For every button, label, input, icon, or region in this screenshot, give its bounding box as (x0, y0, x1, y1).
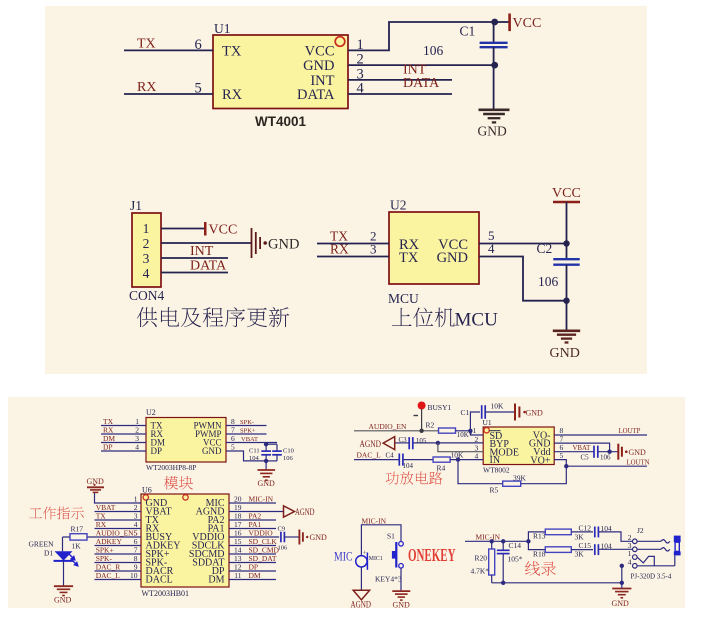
svg-text:DP: DP (151, 446, 163, 456)
svg-text:39K: 39K (513, 474, 527, 483)
svg-text:DATA: DATA (190, 259, 227, 274)
wire U6 pin 20 (229, 502, 276, 504)
svg-text:1: 1 (357, 37, 364, 53)
feedback wire to R5 (458, 460, 503, 484)
branch to R13 (528, 532, 545, 541)
caption 工作指示 (29, 507, 84, 520)
node C1-GND junction (491, 62, 498, 69)
wire R4 to IN (450, 459, 483, 461)
svg-text:DP: DP (103, 443, 113, 452)
capacitor C14 (502, 541, 504, 550)
svg-text:GND: GND (393, 601, 411, 610)
svg-text:4: 4 (475, 451, 479, 460)
wire down to GND (566, 301, 568, 331)
svg-text:J1: J1 (130, 198, 142, 213)
svg-text:C4: C4 (386, 451, 395, 459)
bottom rail (492, 582, 622, 584)
wire U1 pin 1 to VCC node (348, 22, 495, 50)
wire U2 pin 5 to VCC node (479, 243, 567, 245)
wire U6 pin 6 (95, 545, 142, 547)
svg-text:C14: C14 (509, 541, 522, 550)
wire pin 6 VBAT (226, 442, 277, 444)
svg-text:C10: C10 (283, 448, 294, 455)
svg-text:R17: R17 (71, 525, 84, 534)
J2 pin 2 (633, 539, 638, 544)
svg-text:TX: TX (222, 43, 242, 59)
ground (258, 469, 276, 471)
svg-text:GND: GND (87, 477, 105, 486)
svg-text:GND: GND (258, 479, 276, 488)
resistor R18 (545, 547, 571, 553)
wire pin4 to gnd rail (621, 566, 623, 583)
wire to ground (265, 461, 267, 470)
ground (54, 585, 73, 587)
svg-text:6: 6 (195, 37, 202, 53)
svg-text:R5: R5 (490, 486, 499, 495)
svg-text:2: 2 (475, 435, 479, 444)
svg-text:VCC: VCC (513, 16, 542, 31)
wire U6 pin 10 (95, 579, 142, 581)
ground (inverted earth) (93, 484, 95, 486)
svg-text:DATA: DATA (297, 87, 335, 103)
svg-text:D1: D1 (44, 549, 53, 558)
wire RX to U2 pin 3 (317, 256, 389, 258)
capacitor C11 (265, 444, 267, 451)
wire U6 pin 18 (229, 519, 276, 521)
svg-text:GND: GND (550, 346, 580, 361)
ground (392, 590, 410, 592)
J2 ring contact (637, 548, 661, 550)
svg-text:INT: INT (190, 244, 214, 259)
svg-text:GND: GND (54, 596, 72, 605)
svg-text:4: 4 (143, 266, 150, 281)
wire VCC to node (566, 202, 568, 244)
svg-text:DM: DM (249, 571, 261, 580)
svg-text:R18: R18 (533, 549, 546, 558)
wire U6 pin1 to ground (95, 493, 142, 504)
wire TX to U2 pin 2 (317, 243, 389, 245)
svg-text:3: 3 (143, 251, 150, 266)
wire R17 to LED (62, 537, 64, 551)
svg-text:C1: C1 (460, 24, 476, 39)
wire MIC-IN rail (465, 540, 528, 542)
wire pin 8 SPK- (226, 425, 267, 427)
svg-text:AGND: AGND (351, 600, 372, 610)
svg-text:104: 104 (403, 462, 414, 470)
resistor R5 (503, 481, 521, 486)
svg-text:S1: S1 (387, 532, 395, 541)
power symbol VCC (204, 222, 207, 236)
svg-text:DATA: DATA (403, 76, 440, 91)
analog ground AGND triangle (395, 442, 410, 444)
wire to VCC symbol (495, 21, 509, 23)
wire U2 pin 4 to GND node (479, 257, 567, 301)
wire R5 to VO+ node (521, 466, 567, 484)
resistor R4 (403, 459, 433, 461)
svg-text:10K: 10K (491, 402, 505, 411)
node junction (419, 429, 423, 433)
wire Vdd VBAT (554, 451, 594, 453)
svg-text:1K: 1K (72, 542, 82, 551)
wire U6 pin 17 (229, 528, 276, 530)
svg-text:WT4001: WT4001 (255, 114, 307, 129)
wire U1 pin 4 DATA (348, 93, 452, 95)
wire down to GND (493, 65, 495, 109)
capacitor C12 (571, 531, 593, 533)
analog ground AGND triangle (284, 506, 295, 517)
wire pin 5 GND (226, 451, 266, 461)
J2 pin 4 (633, 564, 638, 569)
wire U2 pin 4 (DP) (101, 450, 146, 452)
node IN junction (456, 457, 460, 461)
wire J2 pin4 (637, 565, 675, 567)
node VCC junction (491, 19, 498, 26)
bottom schematic background (8, 397, 685, 608)
svg-text:TX: TX (137, 37, 156, 52)
wire U6 pin 7 (95, 553, 142, 555)
caption 上位机MCU (392, 308, 455, 328)
wire LED to ground (63, 561, 65, 586)
svg-text:SPK+: SPK+ (240, 428, 256, 435)
svg-text:MIC: MIC (334, 549, 353, 564)
wire U6 pin 13 (229, 562, 276, 564)
svg-text:SPK-: SPK- (240, 419, 254, 426)
svg-text:GND: GND (437, 250, 468, 266)
svg-text:MIC-IN: MIC-IN (362, 516, 387, 525)
ground chassis (251, 228, 253, 258)
svg-text:MIC1: MIC1 (369, 556, 383, 562)
svg-text:4: 4 (488, 241, 495, 256)
svg-text:4: 4 (357, 81, 365, 97)
caption 模块 (164, 476, 193, 490)
svg-text:106: 106 (278, 545, 289, 552)
svg-text:LOUTN: LOUTN (627, 459, 650, 466)
svg-text:3K: 3K (575, 549, 585, 558)
svg-text:4: 4 (628, 558, 632, 567)
ground chassis (617, 444, 619, 460)
svg-text:U1: U1 (214, 21, 231, 36)
capacitor C1 to gnd (470, 412, 480, 431)
node VBAT junction (264, 442, 268, 446)
wire BYP to MODE (438, 443, 483, 452)
svg-text:TX: TX (399, 250, 419, 266)
caption 供电及程序更新 (137, 307, 289, 327)
wire U6 pin16 VDDIO to C9 (229, 536, 279, 538)
wire TX to U1 pin 6 (124, 49, 213, 51)
svg-text:105*: 105* (508, 555, 523, 564)
svg-text:2: 2 (143, 236, 150, 251)
wire U2 pin 2 (RX) (101, 433, 146, 435)
wire U6 pin 14 (229, 553, 276, 555)
svg-text:ONEKEY: ONEKEY (408, 545, 456, 565)
wire AUDIO_EN (354, 430, 439, 432)
analog ground AGND (353, 590, 369, 600)
wire RX to U1 pin 5 (124, 93, 213, 95)
svg-text:J2: J2 (637, 526, 644, 535)
jack plug symbol (674, 536, 681, 543)
svg-text:5: 5 (231, 443, 235, 452)
svg-text:LOUTP: LOUTP (619, 428, 641, 435)
ground chassis (514, 404, 516, 421)
svg-text:PJ-320D 3.5-4: PJ-320D 3.5-4 (631, 573, 672, 581)
op-amp U1 WT4001 (213, 35, 348, 109)
microphone MIC1 (356, 556, 367, 567)
wire U6 pin 4 (95, 528, 142, 530)
svg-text:C5: C5 (581, 453, 590, 461)
svg-text:AGND: AGND (360, 440, 382, 450)
notch indicator (183, 495, 188, 500)
wire BYP to C3 (413, 442, 483, 444)
svg-text:GND: GND (303, 58, 334, 74)
power symbol VCC (508, 14, 511, 32)
node pin1 junction (468, 429, 472, 433)
node junction (607, 450, 611, 454)
wire J1 pin3 INT (161, 257, 228, 259)
node junction (563, 240, 569, 246)
svg-text:DAC_L: DAC_L (96, 571, 121, 580)
node junction (564, 464, 568, 468)
svg-text:VBAT: VBAT (241, 436, 258, 443)
wire U6 pin 3 (95, 519, 142, 521)
wire U6 pin 12 (229, 570, 276, 572)
J2 tip contact (637, 540, 661, 542)
wire U1 pin 2 to C1 lower node (348, 64, 495, 66)
wire mic to AGND (360, 567, 362, 590)
ground (553, 329, 580, 332)
svg-text:RX: RX (222, 87, 243, 103)
svg-text:GND: GND (478, 124, 507, 139)
J2 switch contact (637, 556, 654, 565)
node junction (563, 298, 569, 304)
svg-text:104: 104 (249, 455, 260, 462)
svg-text:BUSY1: BUSY1 (428, 403, 452, 412)
capacitor C10 (276, 444, 278, 451)
svg-text:AGND: AGND (295, 507, 315, 517)
svg-text:C11: C11 (249, 448, 260, 455)
svg-text:DAC_L: DAC_L (357, 450, 382, 459)
ground (479, 109, 510, 112)
svg-text:GND: GND (268, 237, 299, 253)
caption 线录 (525, 561, 556, 576)
svg-text:106: 106 (283, 455, 294, 462)
svg-text:1: 1 (143, 221, 150, 236)
svg-text:R13: R13 (533, 532, 546, 541)
svg-text:KEY4*3: KEY4*3 (375, 575, 402, 584)
top schematic background (45, 6, 647, 374)
svg-text:106: 106 (600, 453, 611, 461)
svg-text:R2: R2 (426, 420, 435, 429)
ground chassis (298, 530, 300, 545)
svg-text:C1: C1 (461, 408, 470, 417)
svg-text:U1: U1 (483, 418, 492, 427)
wire U6 pin 2 (95, 511, 142, 513)
wire C12 to J2 pin2 (598, 532, 632, 541)
svg-text:R4: R4 (437, 464, 446, 473)
svg-text:U2: U2 (146, 408, 156, 417)
svg-text:11: 11 (234, 571, 241, 580)
svg-text:DM: DM (208, 575, 224, 586)
wire U2 pin 3 (DM) (101, 442, 146, 444)
wire BUSY1 down (421, 409, 423, 431)
wire GND pin7 (554, 443, 609, 452)
svg-text:MCU: MCU (388, 291, 419, 306)
pin1 indicator (143, 495, 148, 500)
wire U2 pin 1 (TX) (101, 425, 146, 427)
wire C15 to J2 pin3 (598, 548, 632, 550)
wire pin 7 SPK+ (226, 433, 267, 435)
svg-text:MIC-IN: MIC-IN (249, 494, 274, 503)
wire U6 pin19 to AGND (229, 511, 284, 513)
node GND junction (264, 459, 268, 463)
svg-text:3: 3 (370, 242, 377, 257)
resistor R20 (491, 541, 493, 549)
svg-text:C2: C2 (537, 241, 553, 256)
svg-text:VBAT: VBAT (573, 445, 592, 452)
svg-text:C12: C12 (579, 523, 592, 532)
LED arrows (68, 553, 78, 566)
svg-text:U6: U6 (142, 486, 152, 495)
caption 功放电路 (386, 471, 443, 484)
svg-text:5: 5 (195, 81, 202, 97)
svg-text:GREEN: GREEN (29, 540, 55, 549)
svg-text:2: 2 (357, 52, 364, 68)
svg-text:GND: GND (526, 409, 544, 418)
wire U6 pin 15 (229, 545, 276, 547)
svg-text:WT2003HP8-8P: WT2003HP8-8P (146, 463, 196, 472)
capacitor C15 (571, 549, 593, 551)
ground (621, 583, 623, 588)
wire J1 pin1 to VCC (161, 228, 205, 230)
wire key to ground (400, 568, 402, 591)
wire VO- LOUTP (554, 434, 647, 436)
svg-text:4.7K*: 4.7K* (471, 567, 490, 576)
node junction (436, 441, 440, 445)
wire U6 pin 5 (95, 536, 142, 538)
svg-text:VCC: VCC (305, 43, 335, 59)
svg-text:GND: GND (310, 533, 328, 542)
svg-text:MIC-IN: MIC-IN (476, 533, 501, 542)
pin 1 indicator circle (335, 37, 345, 47)
svg-text:GND: GND (202, 446, 222, 456)
wire J1 pin2 to chassis ground (161, 242, 251, 244)
svg-text:1: 1 (473, 426, 477, 435)
svg-text:VO+: VO+ (530, 455, 550, 466)
svg-text:CON4: CON4 (129, 288, 165, 303)
svg-text:DACL: DACL (146, 575, 173, 586)
svg-text:C9: C9 (278, 526, 286, 533)
svg-text:1: 1 (628, 549, 632, 558)
test point BUSY1 (418, 402, 426, 410)
svg-text:10: 10 (130, 571, 138, 580)
svg-text:R20: R20 (475, 554, 488, 563)
wire J1 pin4 DATA (161, 272, 228, 274)
svg-text:VCC: VCC (552, 186, 581, 201)
svg-text:105: 105 (416, 437, 427, 445)
wire VO+ LOUTN (554, 460, 566, 467)
svg-text:4: 4 (135, 443, 139, 452)
svg-text:+: + (363, 550, 367, 557)
svg-text:GND: GND (629, 448, 647, 457)
svg-text:WT2003HB01: WT2003HB01 (142, 589, 190, 598)
wire U6 pin 9 (95, 570, 142, 572)
svg-text:U2: U2 (390, 198, 407, 213)
svg-text:RX: RX (137, 80, 156, 95)
svg-text:WT8002: WT8002 (483, 466, 510, 475)
wire mic to key (361, 525, 401, 556)
wire U6 pin 11 (229, 579, 276, 581)
wire U6 pin 8 (95, 562, 142, 564)
wire DAC_L to C4 (354, 459, 399, 461)
svg-text:5: 5 (560, 451, 564, 460)
branch to R18 (528, 541, 545, 549)
resistor R13 (545, 529, 571, 535)
J2 pin 3 (633, 547, 638, 552)
svg-text:AUDIO_EN: AUDIO_EN (369, 422, 407, 431)
wire VBAT rail (265, 443, 267, 445)
svg-text:106: 106 (538, 274, 559, 289)
svg-text:RX: RX (330, 242, 349, 257)
svg-text:MCU: MCU (455, 310, 499, 331)
J2 pin 1 (633, 555, 638, 560)
svg-text:C15: C15 (579, 541, 592, 550)
wire U1 pin 3 INT (348, 79, 452, 81)
svg-text:GND: GND (612, 599, 630, 608)
svg-text:106: 106 (423, 43, 444, 58)
capacitor C5 (593, 446, 595, 458)
svg-text:VCC: VCC (209, 223, 238, 238)
